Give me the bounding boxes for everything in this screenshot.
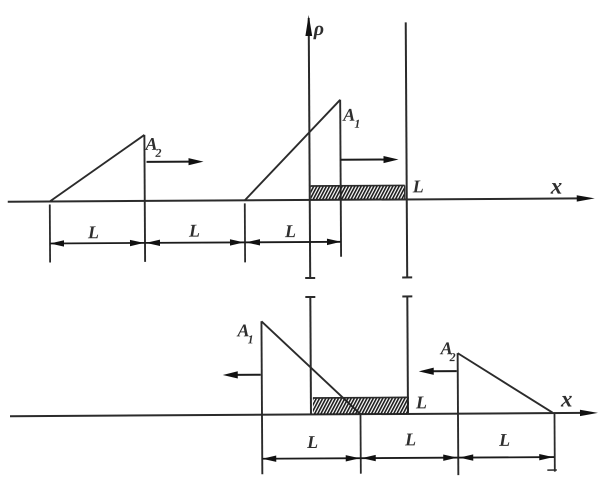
dimension line (bottom) (262, 454, 554, 462)
extension line x=359.5 (bottom) (359, 415, 361, 474)
label A2 (144, 134, 161, 160)
svg-text:L: L (87, 222, 99, 242)
arrow left of bottom A2 (419, 368, 457, 375)
dimension line (top) (50, 239, 341, 247)
x-axis (top) (8, 195, 595, 205)
svg-text:L: L (284, 221, 296, 241)
triangle A1 (top middle load) (244, 100, 341, 258)
svg-text:x: x (550, 174, 563, 199)
triangle A1 (bottom left load, mirrored) (261, 321, 361, 475)
extension line x=245 (244, 203, 246, 262)
svg-text:L: L (306, 432, 318, 452)
extension line x=50 (49, 204, 51, 262)
left section line (lower segment) (305, 297, 316, 415)
label A2 (bottom) (440, 338, 456, 364)
svg-text:L: L (412, 176, 424, 196)
svg-text:L: L (498, 430, 510, 450)
svg-text:L: L (188, 221, 200, 241)
svg-text:2: 2 (154, 146, 161, 160)
svg-text:ρ: ρ (313, 18, 324, 40)
arrow right of A1 (341, 156, 399, 164)
arrow right of A2 (147, 158, 204, 166)
label A1 (342, 105, 360, 131)
hatched strip (top) (311, 185, 405, 199)
svg-text:L: L (404, 429, 416, 449)
x-axis (bottom) (10, 410, 598, 420)
extension line x=551.5 (bottom) (547, 413, 557, 472)
right section line (lower segment) (402, 296, 413, 414)
svg-text:1: 1 (354, 117, 360, 131)
label A1 (bottom) (236, 320, 253, 346)
triangle A2 (top left load) (49, 135, 145, 263)
svg-text:2: 2 (449, 350, 456, 364)
hatched strip (bottom) (313, 397, 409, 414)
right section line (upper segment) (401, 22, 412, 277)
svg-text:1: 1 (248, 332, 254, 346)
svg-text:L: L (415, 392, 427, 412)
triangle A2 (bottom right load, mirrored) (458, 353, 553, 476)
arrow left of bottom A1 (223, 371, 261, 378)
p-axis vertical line (upper segment of left section line) (304, 15, 316, 278)
svg-text:x: x (560, 386, 573, 411)
